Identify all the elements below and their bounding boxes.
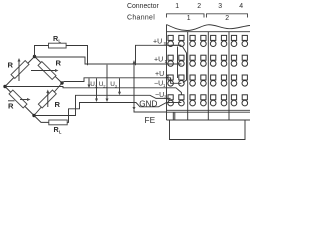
bridge side bottom-right wire bbox=[34, 83, 62, 116]
svg-text:2: 2 bbox=[225, 15, 229, 22]
channel 2 number bbox=[225, 15, 229, 22]
node top vertex bbox=[33, 55, 36, 58]
terminal block base box bbox=[170, 120, 246, 140]
label Connector bbox=[127, 3, 159, 10]
connector number 4 bbox=[239, 3, 243, 10]
arrow of R2 bbox=[31, 69, 59, 72]
wire -U1 from left vertex to terminal 1.4 bbox=[5, 87, 181, 95]
label RL of top lead resistor bbox=[53, 34, 61, 44]
svg-text:L: L bbox=[59, 130, 62, 135]
svg-text:+U: +U bbox=[153, 39, 162, 46]
jumper wire conn1 center vertical bbox=[177, 47, 179, 79]
label R of R4 bbox=[55, 100, 61, 109]
label +U2 bbox=[155, 71, 169, 79]
svg-text:−U: −U bbox=[154, 81, 163, 88]
strain gauge resistor R3 bottom-left bbox=[9, 90, 27, 108]
shield line with arrows bbox=[133, 60, 136, 111]
svg-text:Channel: Channel bbox=[127, 15, 155, 22]
connector 2 terminal points bbox=[190, 35, 206, 106]
svg-text:4: 4 bbox=[239, 3, 243, 10]
svg-text:1: 1 bbox=[187, 15, 191, 22]
label R of R3 bbox=[8, 102, 14, 111]
wire -U2 from right vertex to terminal bbox=[34, 95, 171, 115]
bridge side left-top wire bbox=[5, 57, 35, 87]
label U2 bbox=[99, 81, 107, 89]
label R of R2 bbox=[56, 59, 62, 68]
svg-text:2: 2 bbox=[197, 3, 201, 10]
label FE bbox=[145, 115, 156, 125]
voltage arrow U3 bbox=[118, 78, 121, 95]
node left vertex bbox=[3, 85, 6, 88]
channel 1 bracket bbox=[167, 14, 205, 18]
wire bottom supply through RL bbox=[34, 116, 49, 123]
jumper wire conn1 row2 pair link bbox=[171, 63, 182, 65]
divider connector 3/4 bbox=[228, 32, 230, 120]
jumper wire conn1 row1 pair link bbox=[171, 44, 182, 46]
channel 2 bracket bbox=[207, 14, 248, 18]
connector 3 terminal points bbox=[210, 35, 226, 106]
terminal block torn top edge bbox=[167, 25, 251, 31]
label Channel bbox=[127, 15, 155, 22]
arrow of R3 bbox=[20, 98, 31, 101]
label GND bbox=[139, 100, 157, 109]
label R of R1 bbox=[8, 61, 14, 70]
node bottom vertex bbox=[32, 114, 35, 117]
connector 4 terminal points bbox=[231, 35, 247, 106]
lead resistor RL top bbox=[49, 43, 67, 48]
label R3 overline bbox=[8, 100, 15, 102]
label U3 bbox=[110, 81, 118, 89]
svg-text:L: L bbox=[58, 39, 61, 44]
divider connector 2/3 bbox=[207, 32, 209, 120]
wire GND from bottom vertex via RL to terminal bbox=[67, 103, 170, 123]
strain gauge resistor R2 top-right bbox=[38, 62, 56, 80]
arrow of R1 bbox=[18, 58, 21, 81]
strain gauge resistor R4 bottom-right bbox=[38, 90, 56, 108]
voltage arrow U0 short bbox=[88, 78, 91, 88]
jumper wire conn1 row4 pair link bbox=[171, 102, 182, 104]
label -U2 bbox=[155, 92, 167, 100]
wire +U2 from right vertex to terminal 1.3 bbox=[62, 78, 171, 83]
svg-text:GND: GND bbox=[139, 100, 157, 109]
wire FE to block base bbox=[134, 110, 167, 112]
svg-text:3: 3 bbox=[218, 3, 222, 10]
terminal block FE rail line bbox=[167, 111, 251, 113]
terminal block left edge bbox=[166, 25, 168, 121]
node right vertex bbox=[60, 81, 63, 84]
divider connector 1/2 bbox=[187, 32, 189, 120]
svg-text:R: R bbox=[56, 59, 62, 68]
bridge side left-bottom wire bbox=[5, 87, 34, 116]
voltage arrow U2 bbox=[106, 65, 109, 102]
svg-text:−U: −U bbox=[155, 92, 164, 99]
terminal block lower rail line 2 bbox=[167, 119, 251, 121]
terminal block top line bbox=[167, 31, 251, 33]
terminal block lower rail line bbox=[167, 109, 251, 111]
svg-text:R: R bbox=[55, 100, 61, 109]
svg-text:+U: +U bbox=[155, 71, 164, 78]
lead resistor RL bottom bbox=[49, 120, 67, 125]
connector number 3 bbox=[218, 3, 222, 10]
svg-text:Connector: Connector bbox=[127, 3, 159, 10]
svg-text:1: 1 bbox=[165, 59, 168, 64]
svg-text:1: 1 bbox=[163, 83, 166, 88]
svg-text:R: R bbox=[8, 61, 14, 70]
channel 1 number bbox=[187, 15, 191, 22]
strain gauge resistor R1 top-left bbox=[11, 61, 29, 79]
arrow of R4 bbox=[46, 90, 49, 108]
svg-text:1: 1 bbox=[175, 3, 179, 10]
svg-text:S: S bbox=[164, 41, 167, 46]
label RL of bottom lead resistor bbox=[54, 125, 62, 135]
jumper wire conn1 row1 to row3 bbox=[183, 47, 187, 83]
connector number 2 bbox=[197, 3, 201, 10]
connector 1 terminal points bbox=[168, 35, 184, 106]
svg-text:FE: FE bbox=[145, 115, 156, 125]
svg-text:2,: 2, bbox=[103, 84, 106, 89]
label +Us bbox=[153, 39, 167, 47]
label -U1 bbox=[154, 81, 166, 89]
label U1 bbox=[90, 81, 98, 89]
svg-text:R: R bbox=[8, 102, 14, 111]
voltage arrow U1 bbox=[95, 78, 98, 102]
connector number 1 bbox=[175, 3, 179, 10]
jumper wire conn1 row3 internal bbox=[171, 78, 182, 83]
wire +Us from top vertex through RL to terminal 1.1 bbox=[35, 45, 182, 65]
bridge side top-right wire bbox=[35, 57, 63, 84]
label +U1 bbox=[154, 57, 168, 65]
svg-text:+U: +U bbox=[154, 57, 163, 64]
wire +U1 sense to terminal 1.2 bbox=[35, 57, 182, 64]
FE contact stub bbox=[173, 112, 175, 120]
